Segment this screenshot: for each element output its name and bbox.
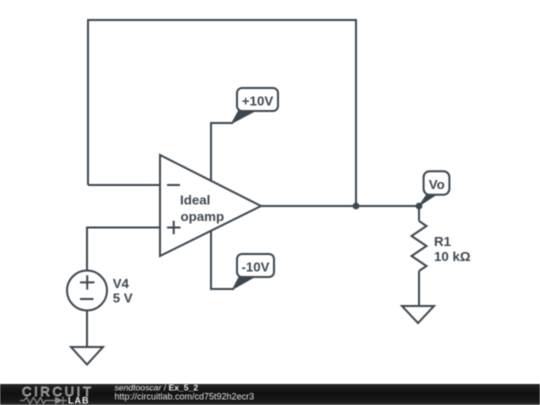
wire R1 to ground — [418, 271, 420, 306]
svg-text:Vo: Vo — [429, 177, 445, 192]
junction dot at feedback node — [353, 203, 360, 210]
wire node to R1 — [418, 206, 420, 221]
svg-text:opamp: opamp — [181, 209, 225, 224]
svg-text:5 V: 5 V — [113, 291, 133, 306]
wire non-inverting input from V4 — [87, 228, 160, 271]
footer bar — [0, 384, 540, 405]
svg-text:LAB: LAB — [68, 396, 90, 405]
svg-text:http://circuitlab.com/cd75t92h: http://circuitlab.com/cd75t92h2ecr3 — [115, 392, 255, 402]
op-amp U1 triangle — [160, 155, 261, 256]
svg-text:V4: V4 — [113, 276, 130, 291]
-10V supply flag — [232, 254, 275, 291]
node flag Vo — [418, 171, 450, 207]
svg-text:10 kΩ: 10 kΩ — [434, 249, 471, 264]
CircuitLab logo diode — [55, 397, 63, 404]
junction dot at output node Vo — [416, 203, 423, 210]
ground below R1 — [402, 306, 434, 323]
V4 value labels — [113, 276, 133, 306]
V4 plus symbol — [80, 275, 94, 289]
wire inverting input — [88, 184, 160, 186]
ground below V4 — [71, 347, 103, 365]
wire -10V supply to op-amp — [211, 231, 234, 289]
wire V4 to ground — [86, 310, 88, 347]
wire +10V supply to op-amp — [211, 123, 233, 181]
+10V supply flag — [231, 88, 279, 125]
op-amp non-inverting input plus symbol — [167, 221, 181, 234]
V4 minus symbol — [80, 298, 94, 300]
svg-text:-10V: -10V — [241, 259, 269, 274]
R1 value labels — [434, 234, 471, 264]
svg-text:Ideal: Ideal — [180, 192, 210, 207]
resistor R1 zigzag — [412, 221, 427, 271]
svg-text:R1: R1 — [434, 234, 452, 249]
op-amp inverting input minus symbol — [167, 184, 180, 186]
wire feedback loop from output to inverting input — [88, 20, 356, 206]
wire output — [261, 205, 419, 207]
CircuitLab logo resistor zigzag — [20, 398, 55, 404]
op-amp label Ideal opamp — [180, 192, 224, 224]
voltage source V4 — [67, 271, 107, 311]
svg-text:+10V: +10V — [242, 93, 274, 108]
